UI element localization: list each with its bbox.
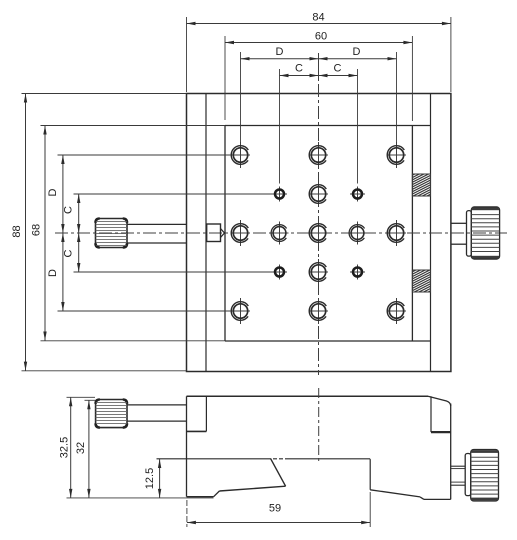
moving plate right edge	[411, 126, 413, 342]
left knurled knob (top view)	[96, 219, 128, 248]
dim 88 line (left)	[22, 94, 187, 371]
svg-text:88: 88	[11, 225, 23, 237]
svg-text:C: C	[63, 249, 75, 257]
svg-text:32.5: 32.5	[59, 437, 71, 458]
svg-text:32: 32	[75, 442, 87, 454]
svg-text:68: 68	[31, 224, 43, 236]
svg-text:C: C	[295, 63, 303, 75]
hole row1 left (big)	[231, 142, 250, 168]
front left edge	[186, 396, 188, 496]
front right block	[431, 396, 451, 432]
front left block	[187, 396, 207, 431]
hole row3 center (big)	[309, 220, 328, 246]
svg-text:D: D	[47, 269, 59, 277]
right knob shaft (top view)	[451, 222, 467, 224]
dim 32.5 line	[67, 397, 214, 498]
hole row3 col2 (medium)	[271, 222, 289, 245]
svg-text:C: C	[334, 63, 342, 75]
hole row1 right (big)	[387, 142, 406, 168]
front bottom-right edge	[424, 498, 451, 500]
body inner left edge line	[205, 94, 207, 372]
right knob knurled body (top view)	[471, 207, 499, 259]
right knob flange (top view)	[467, 211, 472, 257]
moving plate left edge	[224, 126, 226, 342]
hole row3 col1 (big)	[231, 220, 250, 246]
dim 60 line	[225, 36, 412, 121]
front right knob flange	[465, 454, 471, 496]
vertical centerline (top view)	[318, 53, 320, 81]
dim 59 line	[187, 492, 370, 527]
dim 68 line (left)	[41, 126, 226, 341]
front top edge	[187, 395, 429, 397]
upper knurled adjuster screw (hatched)	[412, 174, 430, 196]
dim 32 line	[85, 400, 96, 498]
front dovetail shallow edge right	[370, 490, 420, 497]
svg-text:D: D	[353, 46, 361, 58]
svg-text:12.5: 12.5	[144, 468, 156, 489]
svg-text:59: 59	[269, 503, 281, 515]
front vertical centerline	[318, 388, 320, 462]
front carriage top edge	[157, 458, 371, 460]
screw tip block inside body	[207, 224, 225, 242]
front left shaft	[127, 404, 187, 406]
svg-text:84: 84	[312, 12, 324, 24]
front bottom-left chamfer	[214, 491, 220, 497]
dim C left-upper line	[74, 194, 273, 233]
moving plate bottom edge	[225, 340, 431, 342]
front dovetail steep edge	[271, 458, 286, 486]
svg-text:D: D	[47, 188, 59, 196]
front body outline	[187, 396, 451, 499]
hole row2 left (small)	[272, 187, 287, 202]
dim C left-lower line	[74, 233, 273, 272]
svg-text:C: C	[63, 206, 75, 214]
hole row2 right (small)	[350, 187, 365, 202]
front bottom-right chamfer	[420, 497, 424, 500]
body outer rectangle	[187, 94, 451, 372]
hole row1 center (big)	[309, 142, 328, 168]
dim C top-right line	[319, 69, 358, 184]
front left knurled knob	[96, 400, 127, 428]
hole row3 col5 (big)	[387, 220, 406, 246]
front bottom-left edge	[187, 496, 214, 498]
svg-text:60: 60	[315, 31, 327, 43]
dim C top-left line	[280, 69, 319, 184]
dim D left-upper line	[58, 155, 232, 233]
hole row3 col4 (medium)	[349, 222, 367, 245]
moving plate top edge	[225, 125, 431, 127]
body inner right edge line	[430, 94, 432, 372]
dim D top-right line	[319, 52, 397, 143]
dim D top-left line	[241, 52, 319, 143]
dim 84 line	[187, 17, 451, 92]
hole row2 center (big)	[309, 181, 328, 207]
front carriage right edge	[369, 459, 371, 490]
hole row5 right (big)	[387, 298, 406, 324]
hole row5 center (big)	[309, 298, 328, 324]
lower knurled adjuster screw (hatched)	[412, 270, 430, 292]
front right shaft	[451, 466, 466, 485]
hole row4 left (small)	[272, 265, 287, 280]
front top-right chamfer	[428, 396, 451, 406]
horizontal centerline (top view)	[55, 232, 507, 234]
front dovetail shallow edge left	[219, 486, 285, 491]
hole row4 right (small)	[350, 265, 365, 280]
front right knob knurled body	[471, 450, 499, 502]
hole row5 left (big)	[231, 298, 250, 324]
dim D left-lower line	[58, 233, 232, 311]
dim 12.5 line	[158, 459, 161, 498]
hole row4 center (big)	[309, 259, 328, 285]
front right edge	[450, 404, 452, 500]
left knob shaft (top view)	[127, 223, 187, 225]
svg-text:D: D	[276, 46, 284, 58]
